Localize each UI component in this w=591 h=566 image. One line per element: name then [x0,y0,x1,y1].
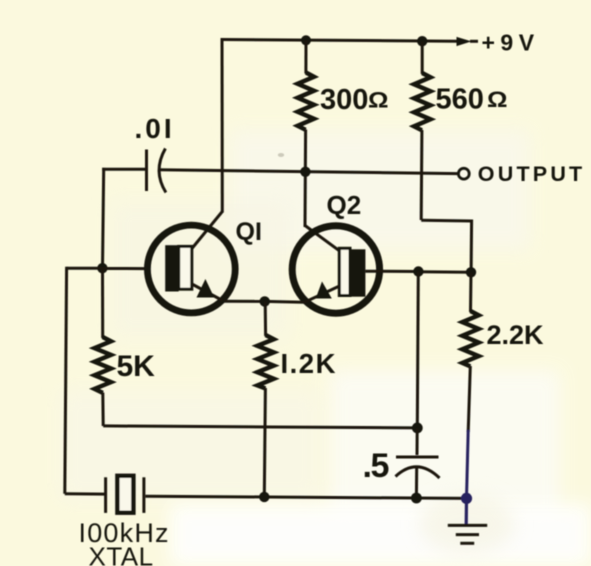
Q2 base black bar [349,249,366,296]
Q2 emitter lead [265,300,304,304]
wire base node down to bypass node [417,272,418,429]
resistor 560 ohm [414,73,431,130]
resistor 2.2K [462,311,478,366]
resistor 300 ohm [298,73,314,130]
resistor 1.2K [257,335,273,388]
node top rail / 300 ohm junction [301,35,311,45]
wire Q2 collector diagonal [305,226,341,252]
svg-text:Ω: Ω [487,87,508,112]
scan speckle [278,153,284,157]
ground bar 2 [456,533,479,536]
wire jog vertical down to Q2 base node [470,220,474,273]
Q1 base outlined bar [179,246,192,289]
wire Q1 collector diagonal [192,212,222,249]
capacitor .5 top plate [396,456,439,459]
wire bottom ground rail [146,496,467,498]
svg-text:QI: QI [236,218,262,246]
wire 1.2K upper lead [264,301,267,336]
wire Q1 collector vertical [221,38,224,213]
svg-text:I.2K: I.2K [281,348,337,379]
svg-text:Ω: Ω [368,88,389,113]
svg-text:XTAL: XTAL [89,542,154,566]
svg-text:OUTPUT: OUTPUT [478,162,586,186]
Q2 emitter arrow [316,282,332,299]
node top rail / 560 ohm junction [417,36,427,46]
node Q1 base junction [97,263,107,273]
wire 5K upper lead [101,268,104,338]
wire 5K lower lead [101,393,104,427]
svg-text:2.2K: 2.2K [487,320,545,350]
Q1 circle [147,225,235,313]
capacitor .5 curved plate [396,467,440,478]
svg-text:300: 300 [320,84,368,116]
svg-text:.0I: .0I [135,113,175,144]
Q2 base lead [365,270,418,273]
wire .01 cap left lead [102,168,146,171]
capacitor .01 left plate [145,150,148,192]
output terminal circle [458,168,469,179]
crystal left plate [104,477,107,513]
node divider / 2.2K junction [466,267,476,277]
node ground junction [461,493,472,504]
Q1 base black bar [165,245,179,291]
node bypass cap top junction [412,423,423,434]
Q1 emitter lead [225,300,266,303]
wire left vertical from cap to Q1 base node [103,168,104,268]
wire horizontal 5K bottom to bypass node [103,426,417,428]
ground stem [465,498,468,524]
wire outer left vertical [65,267,67,494]
wire 2.2K upper lead [469,272,473,312]
node output / Q2 collector junction [300,167,310,177]
wire 560 ohm lower lead down to jog [420,130,424,220]
wire top supply rail [222,40,458,42]
Q2 circle [292,226,379,313]
svg-text:560: 560 [436,84,484,116]
ground bar 3 [460,542,474,545]
wire 560 ohm upper lead [421,41,424,74]
wire 2.2K lower lead tinted [467,430,469,498]
Q1 emitter arrow [197,279,215,298]
node 1.2K bottom junction [259,492,269,502]
+9V arrowhead [457,37,472,46]
node .5 cap bottom junction [411,493,422,504]
Q2 emitter diagonal [303,286,339,303]
resistor 5K [95,337,112,393]
Q2 base outlined bar [339,248,350,295]
svg-text:Q2: Q2 [327,190,362,220]
svg-text:+9V: +9V [482,30,540,56]
+9V arrow tip stub [470,40,478,43]
wire 300 ohm lower lead / Q2 collector vertical [304,130,308,228]
node Q2 base / divider junction [413,266,423,276]
crystal body rectangle [117,476,133,513]
wire 2.2K lower lead [468,366,470,432]
wire .5 cap lower lead [415,467,418,499]
wire base node to divider node [418,270,471,274]
crystal right plate [142,477,145,513]
wire 1.2K lower lead [264,388,265,497]
wire crystal left lead [65,492,106,495]
svg-text:5K: 5K [117,350,156,383]
wire Q1 base lead [102,267,146,270]
wire left jog to outer column [67,267,103,270]
ground bar 1 [448,524,487,527]
transistor Q1 [147,225,265,313]
transistor Q2 [265,226,471,313]
Q1 emitter diagonal [192,284,223,301]
wire 300 ohm upper lead [304,40,307,73]
node emitters / 1.2K junction [260,296,270,306]
wire output line [158,170,458,174]
wire jog horizontal to 2.2K branch [421,219,472,223]
wire .5 cap upper lead [416,428,419,455]
svg-text:.5: .5 [363,447,389,485]
capacitor .01 curved plate [159,149,166,193]
